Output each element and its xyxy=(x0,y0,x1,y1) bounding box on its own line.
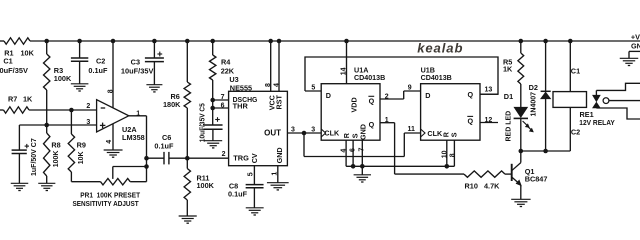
svg-text:C3: C3 xyxy=(131,58,140,67)
svg-text:GND: GND xyxy=(631,41,640,50)
svg-text:100K: 100K xyxy=(54,74,72,83)
svg-text:C1: C1 xyxy=(3,57,12,66)
svg-text:Q: Q xyxy=(369,120,375,129)
svg-text:VDD: VDD xyxy=(350,97,359,112)
svg-text:10K: 10K xyxy=(78,151,85,164)
svg-text:1N4007: 1N4007 xyxy=(530,92,537,117)
svg-text:10uF/35V C5: 10uF/35V C5 xyxy=(199,103,206,142)
svg-text:D: D xyxy=(326,91,331,100)
svg-text:4: 4 xyxy=(340,149,347,153)
svg-text:3: 3 xyxy=(86,119,90,126)
svg-text:1K: 1K xyxy=(503,65,513,74)
svg-text:4: 4 xyxy=(274,83,281,87)
svg-text:D: D xyxy=(425,91,430,100)
svg-text:3: 3 xyxy=(291,127,295,134)
svg-text:Q: Q xyxy=(369,96,375,105)
svg-text:CLK: CLK xyxy=(324,129,340,138)
svg-text:8: 8 xyxy=(265,83,272,87)
svg-text:1: 1 xyxy=(136,110,140,117)
svg-text:100K: 100K xyxy=(53,151,60,168)
svg-text:S: S xyxy=(350,133,359,138)
svg-text:1: 1 xyxy=(271,172,278,176)
svg-text:1: 1 xyxy=(385,117,389,124)
svg-text:THR: THR xyxy=(233,102,249,111)
svg-text:GND: GND xyxy=(275,147,284,163)
svg-text:9: 9 xyxy=(408,84,412,91)
svg-text:R9: R9 xyxy=(77,141,86,150)
svg-text:RST: RST xyxy=(274,95,283,110)
svg-text:7: 7 xyxy=(359,148,366,152)
svg-text:12V RELAY: 12V RELAY xyxy=(579,118,615,127)
svg-text:14: 14 xyxy=(341,67,348,75)
svg-text:4.7K: 4.7K xyxy=(484,182,500,191)
svg-text:7: 7 xyxy=(221,94,225,101)
svg-text:0.1uF: 0.1uF xyxy=(154,142,174,151)
svg-text:C2: C2 xyxy=(571,127,580,136)
svg-text:CD4013B: CD4013B xyxy=(354,73,385,82)
svg-text:8: 8 xyxy=(108,89,115,93)
svg-text:13: 13 xyxy=(485,87,493,94)
svg-text:BC847: BC847 xyxy=(525,174,548,183)
svg-text:TRG: TRG xyxy=(233,154,249,163)
svg-text:6: 6 xyxy=(350,148,357,152)
svg-text:R8: R8 xyxy=(51,141,60,150)
svg-text:2: 2 xyxy=(86,103,90,110)
svg-text:4: 4 xyxy=(106,140,113,144)
svg-text:10uF/35V: 10uF/35V xyxy=(121,67,154,76)
svg-text:5: 5 xyxy=(247,172,254,176)
svg-text:100K: 100K xyxy=(197,181,215,190)
svg-text:C1: C1 xyxy=(571,67,580,76)
svg-text:R10: R10 xyxy=(465,182,478,191)
svg-text:22K: 22K xyxy=(221,67,235,76)
svg-text:0.1uF: 0.1uF xyxy=(88,66,108,75)
svg-text:11: 11 xyxy=(408,126,416,133)
svg-text:R7: R7 xyxy=(8,94,17,103)
svg-text:D1: D1 xyxy=(504,92,513,101)
svg-text:C2: C2 xyxy=(96,57,105,66)
svg-text:10uF/35V: 10uF/35V xyxy=(0,66,28,75)
svg-text:RED LED: RED LED xyxy=(505,111,512,142)
svg-text:kealab: kealab xyxy=(417,41,463,56)
svg-text:GND: GND xyxy=(358,124,367,140)
svg-text:LM358: LM358 xyxy=(122,133,145,142)
svg-text:10: 10 xyxy=(441,150,448,158)
svg-text:12: 12 xyxy=(485,117,493,124)
svg-text:CV: CV xyxy=(250,153,259,163)
svg-text:2: 2 xyxy=(222,151,226,158)
svg-text:1uF/50V C7: 1uF/50V C7 xyxy=(31,138,38,176)
svg-text:8: 8 xyxy=(449,153,456,157)
svg-text:Q: Q xyxy=(468,90,474,99)
svg-text:Q: Q xyxy=(468,116,474,125)
svg-text:R4: R4 xyxy=(221,58,231,67)
svg-text:SENSITIVITY ADJUST: SENSITIVITY ADJUST xyxy=(73,199,140,208)
svg-text:10K: 10K xyxy=(21,49,35,58)
svg-text:180K: 180K xyxy=(163,100,181,109)
svg-text:5: 5 xyxy=(311,84,315,91)
svg-text:2: 2 xyxy=(385,93,389,100)
svg-text:0.1uF: 0.1uF xyxy=(228,189,248,198)
svg-text:3: 3 xyxy=(311,127,315,134)
svg-text:S: S xyxy=(450,132,459,137)
svg-text:1K: 1K xyxy=(23,94,33,103)
svg-text:OUT: OUT xyxy=(264,128,281,137)
svg-text:D2: D2 xyxy=(529,83,538,92)
svg-text:6: 6 xyxy=(221,102,225,109)
svg-text:C6: C6 xyxy=(162,133,171,142)
svg-text:CD4013B: CD4013B xyxy=(421,73,452,82)
svg-text:+V: +V xyxy=(631,33,640,42)
